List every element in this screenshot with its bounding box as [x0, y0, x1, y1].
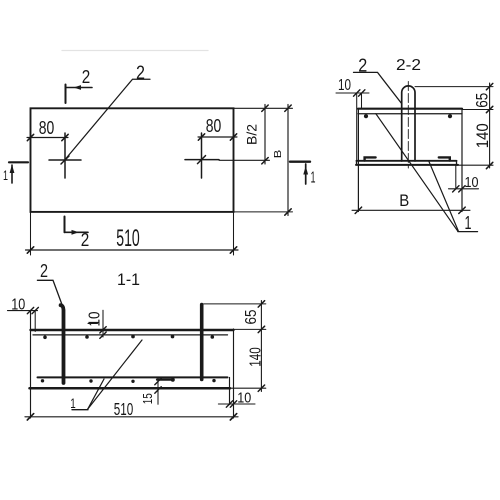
- lower hook bar: [157, 379, 173, 381]
- section mark 2 bottom: [64, 217, 66, 233]
- svg-text:2: 2: [358, 56, 367, 76]
- extension lines for 10 dim: [356, 93, 358, 161]
- dim 510 extension lines: [30, 212, 32, 255]
- svg-text:1: 1: [3, 168, 8, 183]
- main plate bottom line: [358, 113, 462, 115]
- anchor bar 2: [200, 305, 204, 380]
- bottom edge extension to B dim: [234, 211, 293, 213]
- plate outline (510 x B): [31, 108, 234, 212]
- plate right edge + extension down: [233, 329, 235, 418]
- dim 10 bottom-right: [218, 403, 255, 405]
- svg-text:15: 15: [141, 393, 155, 404]
- rebar dot left under plate: [364, 114, 368, 118]
- svg-text:B: B: [272, 150, 284, 159]
- flange level extension: [462, 109, 493, 111]
- svg-text:10: 10: [237, 390, 251, 407]
- dim 65/140 vertical: [260, 301, 262, 392]
- section mark 1 left: [9, 161, 28, 163]
- svg-text:65: 65: [243, 309, 260, 324]
- svg-text:1: 1: [70, 395, 76, 411]
- svg-text:140: 140: [248, 347, 265, 367]
- svg-text:80: 80: [206, 116, 222, 136]
- extension from rib top to 65 dim: [415, 86, 493, 88]
- leader 1 lines: [88, 340, 142, 409]
- anchor bar 1: [61, 305, 64, 383]
- svg-text:10: 10: [338, 77, 351, 94]
- rib (anchor upper part with rounded cap): [402, 86, 415, 161]
- svg-text:2: 2: [40, 261, 48, 281]
- plate right edge extension: [461, 109, 463, 212]
- bottom plate level extension: [457, 164, 494, 166]
- extension from anchor2 top to 65 dim: [204, 303, 266, 305]
- plate top level extension: [234, 328, 266, 330]
- rebar dots under plate: [43, 336, 47, 340]
- dim 80 left: dimension line: [27, 137, 68, 139]
- main plate bottom line: [33, 334, 228, 336]
- svg-text:B/2: B/2: [245, 124, 260, 145]
- dim B: dimension line: [287, 105, 289, 216]
- rebar hook right on bottom plate: [439, 157, 450, 160]
- tick slashes 65/140: [486, 83, 492, 168]
- plate left edge extension: [357, 109, 359, 212]
- dim 10 bottom-right: dimension line: [449, 188, 479, 190]
- plate left edge + extension down: [30, 311, 32, 419]
- leader 1 lines: [376, 114, 458, 232]
- dim B/2: tick slashes: [262, 105, 268, 164]
- dim B: tick slashes: [285, 105, 291, 215]
- section mark 1 right: [290, 160, 310, 162]
- svg-text:B: B: [399, 191, 409, 210]
- dim 80 left: tick slashes: [27, 134, 68, 140]
- plate thickness dim 10: [102, 310, 104, 337]
- lower bars line: [38, 376, 228, 378]
- rebar dot right under plate: [448, 114, 452, 118]
- svg-text:2: 2: [81, 230, 90, 250]
- top edge extension to B dim: [234, 107, 293, 109]
- svg-text:1: 1: [465, 213, 472, 233]
- bottom level extension: [230, 387, 266, 389]
- dim 65/140 vertical line: [489, 83, 491, 168]
- rebar hook left on bottom plate: [365, 157, 376, 160]
- svg-text:10: 10: [87, 311, 104, 326]
- svg-text:510: 510: [114, 399, 134, 419]
- main plate top edge: [358, 108, 462, 110]
- leader 2 to rib: [354, 72, 402, 103]
- section mark 2 top: [65, 85, 67, 104]
- anchor position cross right: [185, 159, 219, 161]
- svg-text:10: 10: [465, 175, 479, 191]
- dim 510: dimension line: [26, 249, 239, 251]
- scan artifact faint line: [62, 50, 208, 52]
- svg-text:1: 1: [311, 170, 316, 187]
- dim 10 top-left: dimension line: [336, 92, 369, 94]
- svg-text:2: 2: [82, 67, 91, 87]
- svg-text:1-1: 1-1: [117, 271, 140, 289]
- main plate top edge: [31, 329, 234, 331]
- dim 10 bottom-right: extension: [455, 165, 457, 189]
- leader 2 to left anchor: [66, 79, 151, 159]
- svg-text:65: 65: [473, 93, 492, 108]
- dim 15: [157, 379, 159, 405]
- extension line from anchor row to B/2 dim: [219, 159, 270, 161]
- svg-text:140: 140: [473, 123, 492, 148]
- svg-text:10: 10: [11, 297, 25, 314]
- label 2 leader to anchor 1: [37, 280, 62, 306]
- dim 80 right: dimension line: [198, 136, 237, 138]
- dim 80 right: tick slashes: [198, 134, 236, 140]
- dim B bottom: dimension line: [352, 209, 470, 211]
- dim 510: tick slashes: [27, 247, 236, 253]
- dim 10 top-left: [8, 310, 38, 312]
- svg-text:2-2: 2-2: [396, 57, 421, 74]
- svg-text:2: 2: [136, 63, 145, 84]
- anchor position cross left: [49, 159, 81, 161]
- svg-text:510: 510: [116, 225, 140, 252]
- lower rebar dots: [41, 379, 44, 382]
- bottom plate bottom edge: [30, 387, 231, 390]
- bottom plate right edge + extension: [229, 377, 231, 404]
- bottom plate: [357, 160, 457, 162]
- dim B/2: dimension line: [264, 105, 266, 165]
- svg-text:80: 80: [39, 118, 55, 138]
- dim 510: [25, 416, 238, 418]
- rib centerline: [407, 82, 409, 169]
